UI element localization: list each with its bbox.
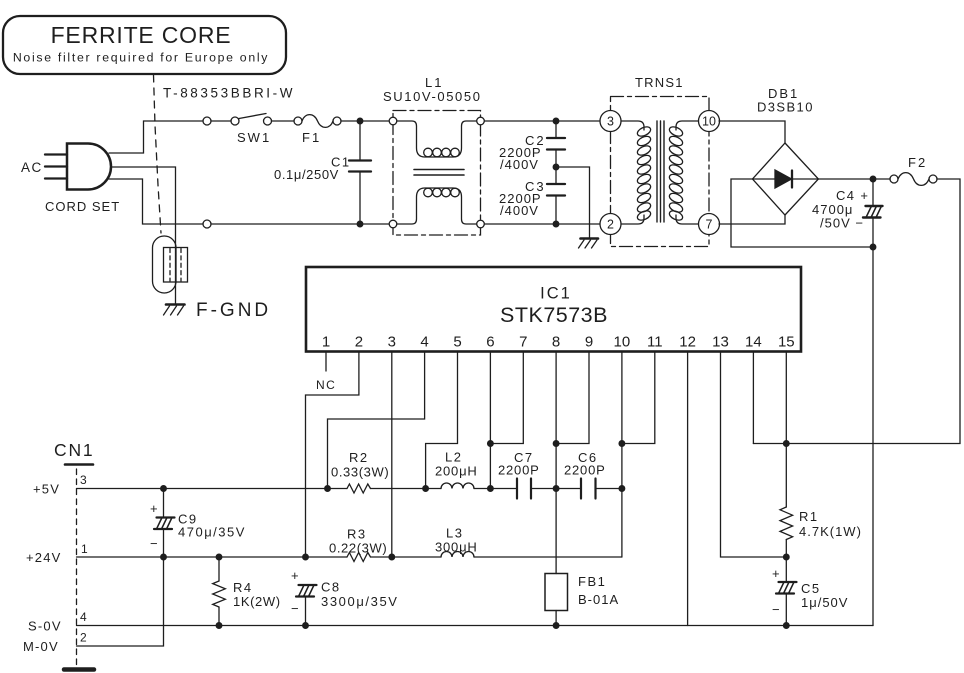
node junction [553, 118, 559, 124]
svg-text:3: 3 [388, 334, 396, 351]
wire C3 to TRNS1 bottom [484, 223, 600, 225]
node junction [303, 554, 309, 560]
svg-text:14: 14 [745, 334, 762, 351]
svg-text:1K(2W): 1K(2W) [233, 594, 281, 609]
node junction [870, 244, 876, 250]
wire [531, 488, 581, 490]
svg-text:5: 5 [453, 334, 461, 351]
svg-text:M-0V: M-0V [23, 639, 59, 654]
svg-text:+5V: +5V [33, 482, 60, 497]
svg-text:Noise filter required for Euro: Noise filter required for Europe only [13, 51, 269, 65]
svg-text:2: 2 [355, 334, 363, 351]
svg-text:7: 7 [706, 218, 713, 232]
node junction [553, 221, 559, 227]
wire TRNS1 pin7 to bridge [719, 215, 785, 224]
capacitor C1 [349, 121, 371, 224]
capacitor C9 [154, 489, 175, 558]
capacitor C5 [776, 557, 797, 626]
wire pin14 down [752, 352, 754, 444]
wire pin7 joins pin6 [490, 352, 523, 444]
node junction [488, 441, 494, 447]
svg-text:C5: C5 [801, 581, 821, 596]
node junction [357, 221, 363, 227]
svg-text:2200P: 2200P [564, 463, 606, 478]
svg-text:−: − [772, 602, 780, 617]
svg-text:0.33(3W): 0.33(3W) [331, 465, 389, 480]
wire pin10 down [621, 352, 623, 558]
wire plug bottom to rail [109, 179, 203, 224]
ferrite core note box [3, 16, 286, 74]
wire +5V rail [77, 488, 348, 490]
resistor R2 [347, 484, 371, 493]
wire pin9 joins pin8 [556, 352, 589, 444]
IC IC1 STK7573B [306, 267, 801, 352]
node junction [784, 441, 790, 447]
svg-text:R3: R3 [347, 527, 367, 542]
svg-text:FERRITE CORE: FERRITE CORE [51, 22, 232, 48]
svg-text:3300μ/35V: 3300μ/35V [321, 594, 399, 609]
capacitor C8 [296, 585, 317, 626]
svg-text:+: + [291, 568, 299, 583]
wire plug top to rail [109, 121, 203, 153]
node junction [216, 554, 222, 560]
svg-text:2: 2 [607, 218, 614, 232]
resistor R4 [213, 557, 226, 626]
wire bottom rail [211, 223, 389, 225]
wire [371, 556, 442, 558]
svg-text:3: 3 [607, 115, 614, 129]
svg-text:2: 2 [80, 631, 87, 645]
wire [211, 120, 231, 122]
wire pin2 to +24V rail [306, 352, 359, 558]
svg-text:/400V: /400V [500, 157, 539, 172]
svg-text:−: − [291, 601, 299, 616]
svg-text:R1: R1 [799, 509, 819, 524]
inductor L3 [441, 552, 474, 558]
svg-text:S-0V: S-0V [28, 619, 62, 634]
node junction [389, 554, 395, 560]
fuse F2 [890, 173, 937, 186]
node junction [553, 486, 559, 492]
node junction [784, 554, 790, 560]
pin 10 [699, 111, 720, 132]
svg-text:F2: F2 [908, 155, 927, 170]
svg-text:1: 1 [81, 542, 88, 556]
svg-text:T-88353BBRI-W: T-88353BBRI-W [163, 86, 295, 101]
svg-text:CORD SET: CORD SET [45, 199, 120, 214]
svg-text:L3: L3 [446, 526, 463, 541]
svg-text:SU10V-05050: SU10V-05050 [383, 89, 482, 104]
wire +24V rail [77, 556, 348, 558]
wire pin5 to +5V rail [426, 352, 458, 489]
connector CORD SET plug [45, 144, 111, 190]
svg-text:9: 9 [585, 334, 593, 351]
resistor R3 [347, 553, 371, 562]
pin numbers 1-15 [322, 334, 795, 351]
capacitor C6 [581, 479, 596, 499]
svg-text:IC1: IC1 [540, 285, 572, 303]
svg-text:4.7K(1W): 4.7K(1W) [799, 524, 862, 539]
ground F-GND [164, 305, 185, 316]
svg-text:C8: C8 [321, 580, 341, 595]
node junction [216, 623, 222, 629]
svg-text:1μ/50V: 1μ/50V [801, 595, 848, 610]
svg-text:1: 1 [322, 334, 330, 351]
wire plug middle to F-GND [111, 167, 176, 304]
svg-text:+: + [772, 566, 780, 581]
svg-text:FB1: FB1 [578, 574, 606, 589]
svg-text:+: + [150, 501, 158, 516]
bridge rectifier DB1 [719, 121, 818, 215]
inductor L2 [441, 483, 474, 489]
node junction [619, 486, 625, 492]
connector CN1 [54, 440, 94, 670]
capacitor C4 [863, 179, 883, 247]
svg-text:12: 12 [679, 334, 696, 351]
svg-text:F1: F1 [302, 130, 321, 145]
node junction [619, 441, 625, 447]
svg-text:NC: NC [316, 378, 336, 392]
wire [371, 488, 442, 490]
pin 2 [600, 214, 621, 235]
wire [474, 488, 517, 490]
wire DB1 minus loop [731, 179, 873, 247]
wire pin8 down [555, 352, 557, 574]
wire pin1 NC [325, 352, 327, 372]
switch SW1 [231, 114, 272, 126]
svg-text:−: − [150, 536, 158, 551]
wire pin6 to +5V rail [489, 352, 491, 489]
wire F2 to pin14 rail [753, 179, 960, 444]
node terminal top-left [203, 117, 211, 125]
node junction [784, 623, 790, 629]
svg-text:C4 +: C4 + [836, 188, 869, 203]
node junction [488, 486, 494, 492]
node junction [870, 176, 876, 182]
svg-text:L1: L1 [425, 75, 443, 90]
node junction [553, 623, 559, 629]
svg-text:15: 15 [778, 334, 795, 351]
wire [596, 488, 622, 490]
svg-text:11: 11 [647, 334, 663, 351]
svg-text:8: 8 [552, 334, 560, 351]
svg-text:10: 10 [614, 334, 631, 351]
wire pin4 to +5V rail [328, 352, 425, 489]
ferrite core on ground wire [153, 236, 188, 293]
pin 3 [600, 111, 621, 132]
svg-text:4: 4 [80, 610, 87, 624]
capacitor C2 [547, 121, 565, 184]
svg-text:R4: R4 [233, 580, 253, 595]
svg-text:TRNS1: TRNS1 [635, 75, 684, 90]
wire pin12 to S-0V rail [687, 352, 689, 626]
wire +24V rail to pin10 column [474, 556, 622, 558]
capacitor C3 [547, 184, 565, 224]
pin 7 [699, 214, 720, 235]
wire L1 to TRNS1 top [484, 120, 600, 122]
node junction [161, 554, 167, 560]
node junction [553, 441, 559, 447]
wire [341, 120, 389, 122]
svg-text:2200P: 2200P [498, 463, 540, 478]
resistor R1 [780, 444, 793, 558]
wire M-0V rail [77, 557, 164, 646]
node junction [357, 118, 363, 124]
svg-text:+24V: +24V [26, 550, 62, 565]
wire pin13 to R1 bottom [721, 352, 787, 558]
fuse F1 [294, 115, 341, 128]
ferrite bead FB1 [545, 574, 568, 626]
svg-text:D3SB10: D3SB10 [757, 100, 814, 115]
transformer TRNS1 [600, 97, 720, 247]
svg-text:AC: AC [21, 160, 43, 175]
wire S-0V rail [77, 625, 874, 627]
svg-text:/400V: /400V [500, 203, 539, 218]
capacitor C7 [517, 479, 531, 499]
svg-text:300μH: 300μH [435, 540, 478, 555]
choke L1 [389, 111, 484, 236]
svg-text:3: 3 [80, 473, 87, 487]
svg-text:0.1μ/250V: 0.1μ/250V [274, 167, 339, 182]
node junction [423, 486, 429, 492]
svg-text:STK7573B: STK7573B [500, 303, 608, 327]
wire pin11 joins pin10 [622, 352, 655, 444]
node junction [161, 486, 167, 492]
svg-text:7: 7 [519, 334, 527, 351]
node terminal bottom-left [203, 220, 211, 228]
svg-text:F-GND: F-GND [196, 300, 271, 321]
wire C4 to S-0V rail [872, 247, 874, 626]
svg-text:6: 6 [486, 334, 494, 351]
wire pin3 to +24V rail [391, 352, 393, 558]
node junction [325, 486, 331, 492]
svg-text:470μ/35V: 470μ/35V [178, 525, 246, 540]
node junction [553, 164, 559, 170]
svg-text:0.22(3W): 0.22(3W) [329, 541, 387, 556]
wire C2C3 midpoint to ground [556, 167, 590, 238]
svg-text:200μH: 200μH [435, 464, 478, 479]
svg-text:CN1: CN1 [54, 440, 94, 460]
wire DB1 plus rail [818, 178, 890, 180]
wire [272, 120, 295, 122]
wire pin15 down [785, 352, 787, 444]
svg-text:L2: L2 [445, 450, 462, 465]
svg-text:SW1: SW1 [237, 130, 271, 145]
svg-text:10: 10 [702, 115, 716, 129]
svg-text:13: 13 [712, 334, 729, 351]
svg-text:4: 4 [420, 334, 428, 351]
ferrite core dashed leader [154, 75, 162, 233]
svg-text:R2: R2 [349, 450, 369, 465]
svg-text:B-01A: B-01A [578, 592, 619, 607]
svg-text:/50V −: /50V − [820, 216, 864, 231]
ground [579, 239, 599, 249]
node junction [303, 623, 309, 629]
